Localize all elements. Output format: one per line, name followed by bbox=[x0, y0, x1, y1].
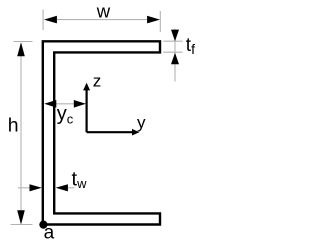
t_w arrow left bbox=[30, 184, 42, 191]
h dimension extension line top bbox=[14, 41, 33, 43]
h dimension line bbox=[20, 55, 22, 211]
svg-text:w: w bbox=[96, 1, 111, 22]
t_f arrow top bbox=[171, 30, 179, 42]
svg-text:tw: tw bbox=[72, 169, 88, 192]
y axis arrow bbox=[132, 129, 139, 136]
z axis line bbox=[85, 89, 87, 132]
h dimension arrow bottom bbox=[17, 210, 25, 224]
svg-text:tf: tf bbox=[186, 35, 195, 57]
y_c arrow right bbox=[74, 100, 86, 108]
y_c arrow left bbox=[44, 100, 56, 108]
z axis arrow bbox=[83, 83, 90, 91]
w dimension line bbox=[55, 19, 148, 21]
h dimension arrow top bbox=[17, 42, 25, 56]
t_f arrow bottom bbox=[171, 53, 179, 64]
t_w arrow right bbox=[56, 184, 68, 191]
w dimension arrow left bbox=[44, 16, 57, 24]
y_c dimension line bbox=[50, 103, 76, 105]
svg-text:a: a bbox=[44, 223, 55, 244]
svg-text:h: h bbox=[8, 115, 19, 137]
t_f dimension line bbox=[174, 29, 176, 82]
svg-text:y: y bbox=[137, 113, 146, 132]
w dimension arrow right bbox=[147, 16, 160, 24]
h dimension extension line bottom bbox=[11, 224, 33, 226]
w dimension extension line left bbox=[42, 10, 44, 31]
t_f extension line top bbox=[163, 40, 182, 42]
point a bbox=[39, 221, 47, 229]
t_w dimension line left bbox=[18, 187, 33, 189]
y axis line bbox=[87, 131, 133, 133]
svg-text:z: z bbox=[93, 72, 102, 91]
svg-text:yc: yc bbox=[57, 103, 74, 126]
w dimension extension line right bbox=[159, 11, 161, 32]
t_f extension line bottom bbox=[163, 51, 182, 53]
t_w dimension line right bbox=[67, 187, 75, 189]
channel outline bbox=[43, 41, 160, 224]
